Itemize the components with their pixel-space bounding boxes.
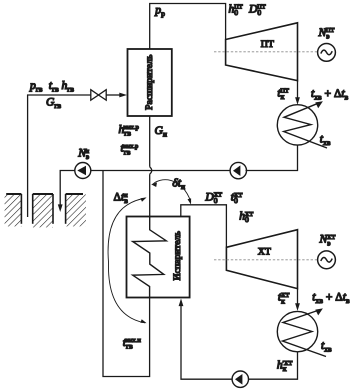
- svg-text:tхв + Δtв: tхв + Δtв: [311, 87, 349, 102]
- wire: feed line back into evaporator: [181, 304, 232, 380]
- svg-text:tхв + Δtв: tхв + Δtв: [312, 290, 350, 305]
- svg-text:Δtви: Δtви: [114, 191, 129, 206]
- steam turbine ПТ: [226, 23, 298, 81]
- svg-text:δtи: δtи: [172, 176, 185, 191]
- svg-text:Nэи: Nэи: [77, 147, 89, 162]
- wire: ХТ condensate drain to feed pump: [249, 352, 298, 379]
- wire: pump line to injection well (crosses main line with hop): [60, 171, 229, 207]
- wire: valve to expander inlet: [106, 94, 122, 96]
- svg-text:ХТ: ХТ: [258, 247, 271, 258]
- pump P1 (reinjection pump N_э^и): [75, 163, 91, 179]
- condenser ПТ (surface heat exchanger): [277, 105, 317, 145]
- condenser ХТ (surface heat exchanger): [277, 311, 317, 351]
- ground: well casing hatching block 1: [5, 194, 22, 226]
- shaft axis ХТ (dash-dot): [214, 259, 318, 261]
- svg-text:tхв: tхв: [320, 132, 331, 147]
- ground: well casing hatching block 2: [33, 194, 53, 227]
- svg-text:D0ПТ: D0ПТ: [248, 2, 266, 17]
- wire: geothermal return U-loop to reinjection line: [103, 171, 150, 377]
- shaft axis ПТ (dash-dot): [214, 51, 318, 53]
- svg-text:NэПТ: NэПТ: [318, 26, 335, 41]
- coil in condenser ПТ with cooling water out arrow: [284, 103, 327, 148]
- svg-text:Расширитель: Расширитель: [144, 54, 155, 110]
- svg-text:ПТ: ПТ: [261, 39, 274, 50]
- arrow into condenser ХТ: [295, 303, 300, 311]
- wire: steam line from expander top to PT turbine inlet: [150, 4, 226, 50]
- svg-text:hгввых.р: hгввых.р: [119, 123, 139, 138]
- pump P3 (ХТ condensate/feed pump): [232, 371, 248, 387]
- wire: secondary steam D_0^ХТ from evaporator to ХТ turbine: [181, 205, 227, 248]
- svg-text:pр: pр: [154, 3, 165, 18]
- svg-text:tгв: tгв: [49, 79, 59, 94]
- svg-text:h0ХТ: h0ХТ: [239, 210, 253, 225]
- svg-text:hк′ХТ: hк′ХТ: [277, 359, 293, 374]
- arrow into expander: [119, 93, 127, 98]
- expander vessel (Расширитель): [128, 49, 172, 116]
- svg-text:NэХТ: NэХТ: [319, 233, 336, 248]
- wire: condensate drain ПТ down to pump line: [246, 145, 298, 170]
- arrow into evaporator bottom: [179, 299, 184, 307]
- pump P2 (ПТ condensate pump): [230, 162, 246, 178]
- svg-text:D0ХТ: D0ХТ: [204, 191, 222, 206]
- wire: ПТ exhaust to condenser: [297, 81, 299, 99]
- svg-text:Gгв: Gгв: [46, 96, 61, 111]
- wire: expander drain G_и down across pump line (hop) to evaporator: [149, 116, 151, 167]
- valve VL1 (throttle): [91, 90, 106, 101]
- svg-text:tкПТ: tкПТ: [277, 86, 289, 101]
- wire: ХТ exhaust to condenser: [297, 289, 299, 305]
- wire: geothermal water feed line p_гв from production well to valve: [28, 95, 91, 217]
- svg-text:h0ПТ: h0ПТ: [229, 2, 243, 17]
- arc Δt_в^и (geothermal water temperature drop, double arrow): [108, 198, 145, 323]
- coil in condenser ХТ with cooling water out arrow: [283, 310, 327, 357]
- svg-text:tкХТ: tкХТ: [278, 291, 290, 306]
- svg-text:hгв: hгв: [62, 79, 75, 94]
- steam turbine ХТ: [226, 230, 297, 289]
- arc δt_и (temperature head in evaporator, double arrow): [153, 180, 191, 202]
- svg-text:t0ХТ: t0ХТ: [231, 191, 243, 206]
- svg-text:tгввых.р: tгввых.р: [121, 142, 139, 157]
- svg-text:Gи: Gи: [155, 124, 167, 139]
- coil in evaporator (geothermal water): [133, 217, 167, 298]
- svg-text:tгввых.и: tгввых.и: [123, 336, 142, 351]
- svg-text:tхв: tхв: [321, 339, 332, 354]
- svg-text:pгв: pгв: [29, 79, 43, 94]
- evaporator vessel (Испаритель): [127, 217, 190, 298]
- arrow into condenser ПТ: [295, 97, 300, 105]
- generator G1: [318, 44, 336, 62]
- arrow into injection well: [58, 204, 63, 212]
- generator G2: [318, 251, 336, 269]
- ground: well casing hatching block 3: [66, 194, 86, 226]
- svg-text:Испаритель: Испаритель: [172, 230, 183, 280]
